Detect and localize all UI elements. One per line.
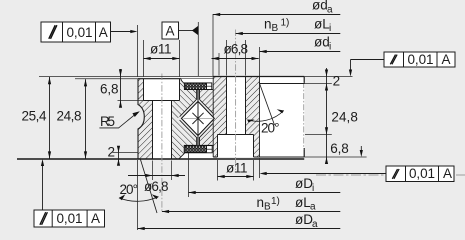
crossed roller (diamond) (181, 101, 214, 135)
top seal slot (white) (181, 77, 213, 89)
dimension 2 top-right (325, 68, 340, 164)
contact angle arc bottom-left with arrows (119, 197, 159, 202)
dia d_a reference line (213, 0, 340, 16)
axis dash-dot line lower right (316, 174, 465, 176)
tolerance frame top-right (349, 52, 455, 77)
svg-text:i: i (312, 183, 314, 194)
svg-text:0,01: 0,01 (57, 211, 83, 226)
dimension o11 top (144, 40, 180, 77)
svg-text:n: n (264, 16, 272, 31)
svg-text:øD: øD (295, 176, 313, 191)
svg-text:a: a (312, 219, 318, 230)
svg-text:A: A (91, 211, 100, 226)
counterbore top extension right (305, 134, 332, 136)
dimension 6,8 right (325, 141, 349, 164)
dia D_a reference line (138, 212, 341, 230)
svg-text:øD: øD (295, 212, 313, 227)
through hole o6.8 right edges (227, 77, 246, 135)
svg-text:i: i (329, 42, 331, 53)
svg-text:20°: 20° (261, 120, 280, 135)
svg-text:24,8: 24,8 (57, 109, 82, 124)
plug stem gap (white) (196, 89, 199, 145)
svg-text:A: A (443, 166, 452, 181)
left ring OD edge with R5 groove (138, 79, 144, 159)
centerline right bolt hole (235, 30, 237, 171)
extension line plug axis (up, datum) (197, 22, 199, 76)
inner ring bottom edge (213, 156, 304, 158)
left ring top edge thin continuation over seal slot (181, 78, 213, 80)
top plug stem (197, 89, 200, 99)
roller axis star: diagonal rays (192, 113, 203, 124)
svg-text:0,01: 0,01 (409, 166, 435, 181)
left ring top extension (y=78.7) (75, 78, 138, 80)
dia L_i reference line with n_B (236, 16, 341, 35)
svg-text:ød: ød (314, 35, 330, 50)
svg-text:0,01: 0,01 (67, 25, 93, 40)
left ring top edge (138, 78, 181, 80)
svg-text:6,8: 6,8 (330, 141, 349, 156)
contact angle 20deg line bottom-left (140, 159, 157, 213)
tolerance frame bottom-right (260, 166, 455, 182)
counterbore o11 left (white) (144, 78, 180, 101)
recess boundary vertical edge (259, 77, 261, 158)
centerline left bolt hole (161, 74, 163, 212)
extension line left OD (up) (137, 25, 139, 77)
extension line left OD (down) (137, 160, 139, 230)
dimension 24,8 left (57, 79, 88, 158)
extension line d_a (up) (212, 14, 214, 76)
inner ring top surface edge (213, 76, 304, 78)
svg-text:ø6,8: ø6,8 (224, 42, 249, 57)
dimension o6,8 top (212, 40, 259, 76)
inner ring left edge (212, 77, 214, 158)
svg-text:2: 2 (108, 145, 116, 160)
tolerance frame bottom-left (34, 159, 105, 227)
dimension 25,4 (22, 77, 52, 159)
seal slot walls top (181, 79, 213, 90)
tolerance frame top-left (41, 22, 138, 42)
svg-text:A: A (99, 25, 108, 40)
svg-text:25,4: 25,4 (22, 109, 47, 124)
svg-text:1): 1) (281, 18, 290, 29)
bottom plug stem (197, 137, 200, 145)
dimension 6,8 top-left (100, 69, 122, 108)
inner ring bore centerline (dash-dot) (303, 82, 305, 150)
svg-text:ø11: ø11 (226, 161, 248, 176)
through hole o6.8 right (white) (227, 77, 246, 135)
through hole o6.8 left edges (153, 101, 172, 159)
dia D_i reference line (189, 176, 341, 194)
seal slot walls bottom (179, 145, 213, 159)
counterbore o11 left edges (144, 79, 180, 101)
bottom seal (coil section) (184, 146, 212, 153)
svg-text:6,8: 6,8 (100, 82, 119, 97)
svg-text:a: a (310, 202, 316, 213)
svg-text:øL: øL (314, 16, 330, 31)
svg-text:n: n (257, 195, 265, 210)
extension line d_i (down) (259, 158, 261, 178)
top surface extension line (y=76.5) (39, 76, 213, 78)
recess top extension right (304, 83, 332, 85)
svg-text:øL: øL (295, 195, 311, 210)
svg-text:B: B (264, 202, 271, 213)
dimension o6,8 bottom (128, 161, 185, 195)
svg-text:20°: 20° (120, 182, 139, 197)
dimension o11 bottom (218, 160, 254, 181)
datum A box (162, 22, 198, 39)
contact angle arc right with arrows (247, 111, 283, 122)
inner-ring recess zone (white) (260, 77, 305, 158)
svg-text:R5: R5 (100, 114, 115, 129)
svg-text:A: A (442, 52, 451, 67)
through hole o6.8 left (white) (153, 101, 172, 159)
counterbore o11 right edges (218, 135, 254, 158)
roller axis star: vertical ray (197, 89, 199, 145)
seal bottom extension left (113, 152, 139, 154)
bottom seal slot (white) (179, 145, 213, 158)
bottom surface long line (17, 158, 304, 160)
svg-text:0,01: 0,01 (408, 52, 434, 67)
inner ring bottom extension right (304, 156, 366, 158)
svg-text:ø11: ø11 (150, 42, 172, 57)
dia d_i reference line (260, 35, 341, 54)
inner ring (hatched section) (200, 77, 260, 158)
extension line seal groove dia (down) (188, 153, 190, 197)
svg-text:B: B (272, 23, 279, 34)
svg-text:A: A (166, 24, 175, 39)
contact angle 20deg line right (259, 82, 275, 125)
svg-text:i: i (329, 23, 331, 34)
dimension 24,8 right (325, 110, 358, 135)
roller axis star: horizontal ray (pitch line) (184, 117, 213, 119)
svg-text:a: a (327, 5, 333, 16)
svg-text:24,8: 24,8 (331, 110, 358, 125)
dia L_a reference line with n_B (162, 195, 340, 213)
roller raceway outer diamond (180, 100, 214, 138)
inner ring right edge (303, 77, 305, 158)
outer ring right half L2 (hatched section) (172, 79, 197, 159)
svg-text:1): 1) (271, 196, 280, 207)
extension line d_i (up) (259, 47, 261, 76)
svg-text:ød: ød (312, 0, 328, 13)
top seal (coil section) (184, 83, 211, 90)
arrow on bottom extension at x=361 (360, 146, 363, 157)
dimension 2 bottom-left (108, 145, 121, 166)
svg-text:2: 2 (333, 73, 341, 88)
outer ring left half L1 (hatched section, holes cut) (138, 79, 153, 159)
counterbore bottom extension left (118, 100, 144, 102)
counterbore o11 right (white) (218, 135, 254, 158)
svg-text:ø6,8: ø6,8 (144, 179, 169, 194)
recess top edge (260, 83, 305, 85)
